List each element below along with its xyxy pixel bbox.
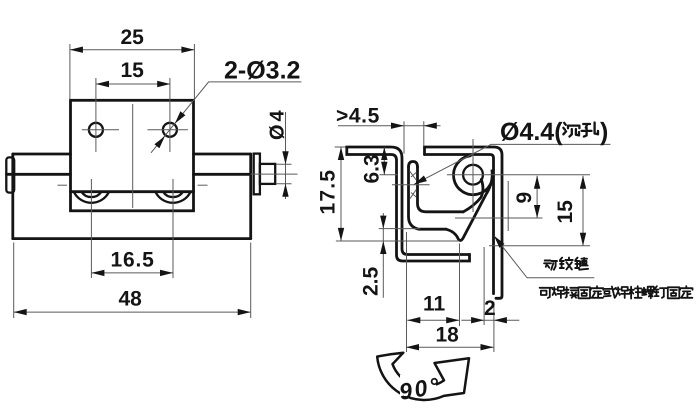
knuckle arc outer right bbox=[155, 192, 190, 203]
svg-text:2.5: 2.5 bbox=[360, 266, 383, 296]
svg-text:18: 18 bbox=[436, 324, 460, 347]
dimension gt4.5 bbox=[336, 104, 441, 154]
knuckle arc inner right bbox=[163, 192, 183, 197]
pin washer right bbox=[254, 154, 260, 195]
knuckle arc inner left bbox=[81, 192, 101, 197]
dimension 6.3 bbox=[361, 147, 388, 184]
dimension diam4 (pin) bbox=[267, 107, 292, 199]
ext line right of leg bbox=[507, 181, 509, 231]
svg-text:Ø4: Ø4 bbox=[267, 107, 289, 140]
svg-text:9: 9 bbox=[513, 192, 536, 204]
svg-text:Ø4.4(: Ø4.4( bbox=[500, 118, 563, 146]
dimension 15 side bbox=[489, 176, 590, 246]
hole right bbox=[163, 123, 177, 137]
moving leaf strip bottom and leg inner bbox=[425, 155, 494, 294]
barrel ramp inner tail bbox=[463, 180, 483, 212]
hole left centerline h bbox=[82, 129, 119, 131]
svg-text:11: 11 bbox=[423, 293, 446, 316]
barrel curl outer spiral and ramp bbox=[446, 156, 493, 241]
svg-text:2: 2 bbox=[484, 297, 496, 320]
rotation arrow 90deg bbox=[377, 353, 469, 400]
hole centerline h bbox=[392, 184, 430, 186]
hole right centerline v bbox=[169, 78, 171, 152]
dimension 9 bbox=[455, 176, 543, 218]
hinge bar body bbox=[7, 154, 251, 239]
mounting plate bbox=[71, 100, 194, 211]
wire bar top right segment bbox=[194, 153, 251, 156]
knuckle arc outer left bbox=[74, 192, 109, 203]
svg-text:>4.5: >4.5 bbox=[336, 104, 380, 127]
svg-text:16.5: 16.5 bbox=[111, 249, 155, 272]
wire bar mid left segment bbox=[7, 173, 71, 176]
dimension 18 bbox=[406, 324, 494, 351]
svg-text:25: 25 bbox=[121, 26, 145, 49]
U wall rounded cap bbox=[409, 162, 418, 168]
svg-text:6.3: 6.3 bbox=[361, 154, 384, 183]
wire bar right edge bbox=[249, 154, 252, 239]
axis tick left bbox=[58, 184, 68, 186]
wire bar mid right segment bbox=[194, 173, 251, 176]
knuckle centerline right v bbox=[172, 179, 174, 278]
svg-text:2-Ø3.2: 2-Ø3.2 bbox=[224, 57, 300, 85]
moving leaf top strip and right leg outer bbox=[425, 147, 503, 298]
dimension 25 bbox=[70, 26, 194, 100]
hole right centerline h bbox=[147, 129, 188, 131]
countersink mark upper bbox=[410, 171, 416, 180]
dimension 2 bbox=[461, 247, 519, 352]
dimension 17.5 bbox=[317, 147, 346, 241]
svg-text:15: 15 bbox=[554, 200, 577, 224]
axis tick right bbox=[198, 184, 208, 186]
wire bar top left segment bbox=[13, 153, 71, 156]
dimension 48 bbox=[14, 243, 251, 319]
label diam4.4 counterbore bbox=[414, 118, 611, 184]
static leaf Z profile bbox=[347, 147, 470, 261]
pin axis centerline right bbox=[251, 173, 298, 175]
label CJK moving-hinge text bbox=[544, 258, 588, 270]
U wall right and inner bottom bbox=[418, 167, 464, 212]
pin head cap left bbox=[6, 157, 14, 192]
U outer bottom and wall left bbox=[409, 167, 447, 229]
label 2-diam3.2 leader bbox=[151, 57, 301, 153]
dimension 15 bbox=[96, 59, 170, 87]
label CJK counterbore in diam4.4 bbox=[563, 123, 598, 137]
label moving-leaf leader bbox=[494, 236, 594, 278]
countersink mark lower bbox=[410, 190, 416, 199]
svg-text:): ) bbox=[600, 118, 608, 146]
dimension 11 bbox=[407, 232, 460, 352]
dimension 2.5 bbox=[336, 213, 460, 298]
axis ext left bbox=[380, 174, 398, 176]
hole left bbox=[89, 123, 103, 137]
pin hole bbox=[463, 165, 483, 185]
svg-text:15: 15 bbox=[121, 59, 145, 82]
svg-text:48: 48 bbox=[119, 288, 143, 311]
svg-text:17.5: 17.5 bbox=[317, 169, 340, 215]
label CJK weld note text bbox=[540, 286, 693, 298]
90deg text white backing bbox=[400, 375, 436, 396]
wire bar left edge bbox=[11, 154, 14, 239]
plate centerline v bbox=[132, 104, 134, 208]
knuckle top line bbox=[71, 190, 194, 193]
pin nut right bbox=[260, 164, 275, 184]
hole left centerline v bbox=[95, 78, 97, 152]
dimension 16.5 bbox=[91, 249, 173, 277]
barrel centerline h bbox=[447, 174, 590, 176]
barrel centerline v bbox=[472, 139, 474, 212]
wire bar bottom bbox=[13, 237, 251, 240]
knuckle centerline left v bbox=[90, 179, 92, 278]
